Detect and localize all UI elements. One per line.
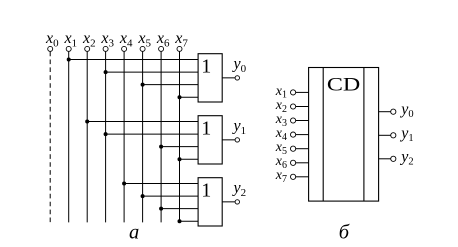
svg-text:CD: CD (327, 75, 360, 96)
svg-text:1: 1 (201, 118, 211, 140)
svg-text:а: а (129, 222, 139, 244)
svg-text:1: 1 (201, 180, 211, 202)
svg-text:б: б (339, 222, 350, 244)
svg-text:1: 1 (201, 56, 211, 78)
